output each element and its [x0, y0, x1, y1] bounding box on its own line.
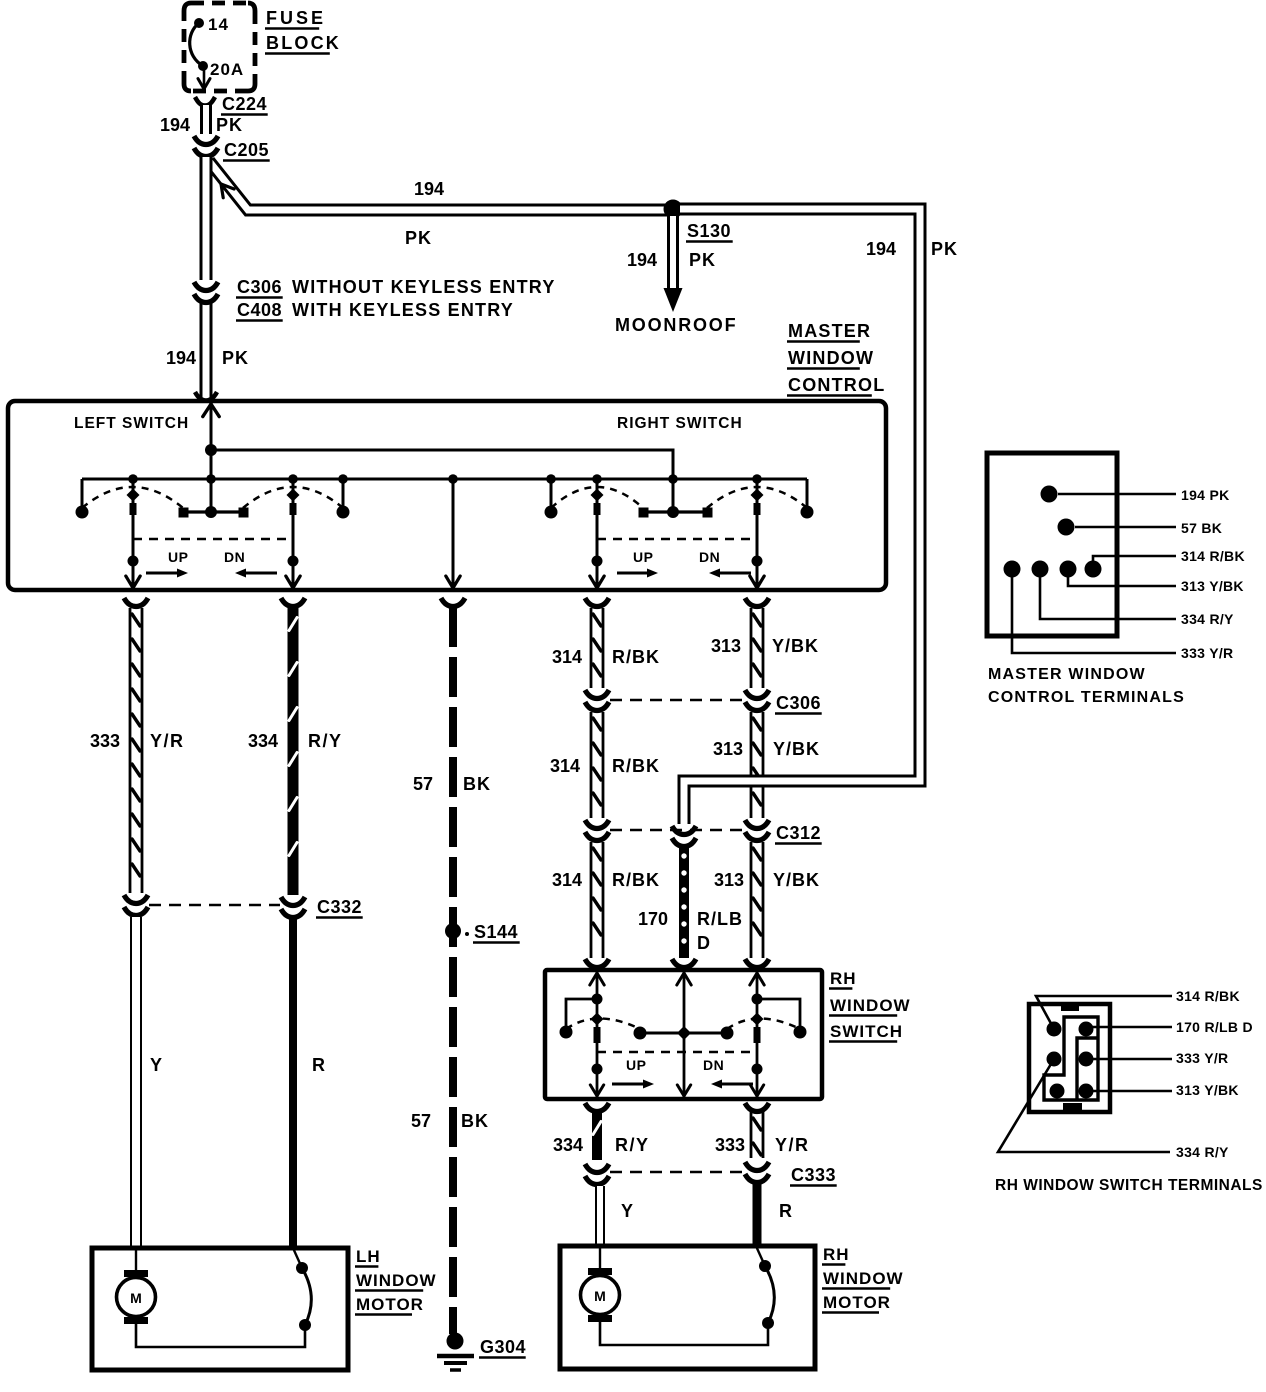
connector C332 on wire 333: [124, 895, 148, 904]
connector C333 on wire 333: [745, 1162, 769, 1171]
svg-text:MOONROOF: MOONROOF: [615, 315, 737, 335]
svg-text:334 R/Y: 334 R/Y: [1181, 611, 1234, 627]
feed wire to left switch center contact: [210, 450, 213, 510]
feed entry arrow into box: [203, 404, 211, 417]
RH window switch terminals connector: [1029, 1004, 1110, 1112]
wire 313 Y/BK segment 2: [750, 712, 753, 818]
svg-text:C224: C224: [222, 94, 267, 114]
svg-text:BK: BK: [463, 774, 491, 794]
svg-text:57: 57: [411, 1111, 431, 1131]
RH switch left wiper: [596, 973, 599, 1096]
wire R to RH motor: [753, 1184, 762, 1245]
svg-text:Y/R: Y/R: [150, 731, 185, 751]
svg-text:WINDOW: WINDOW: [788, 348, 874, 368]
terminal pin 194 PK: [1041, 486, 1058, 503]
C312 dashed tie line: [610, 829, 744, 832]
RH switch wiper arcs: [566, 1019, 640, 1030]
svg-text:194: 194: [414, 179, 444, 199]
svg-text:Y/R: Y/R: [775, 1135, 810, 1155]
svg-text:57: 57: [413, 774, 433, 794]
svg-text:WINDOW: WINDOW: [356, 1271, 437, 1290]
svg-text:UP: UP: [633, 549, 653, 565]
svg-text:SWITCH: SWITCH: [830, 1022, 903, 1041]
splice S144: [445, 923, 461, 939]
svg-text:WINDOW: WINDOW: [830, 996, 911, 1015]
svg-text:333 Y/R: 333 Y/R: [1181, 645, 1233, 661]
svg-text:C306: C306: [237, 277, 282, 297]
svg-text:C312: C312: [776, 823, 821, 843]
svg-text:194: 194: [866, 239, 896, 259]
RH motor symbol: [599, 1246, 601, 1268]
svg-text:194 PK: 194 PK: [1181, 487, 1230, 503]
right switch contacts: [545, 506, 558, 519]
svg-text:R/Y: R/Y: [308, 731, 343, 751]
connector C312 on wire 313: [745, 820, 769, 829]
ground G304 symbol: [447, 1333, 464, 1350]
svg-text:314 R/BK: 314 R/BK: [1176, 988, 1240, 1004]
svg-text:CONTROL TERMINALS: CONTROL TERMINALS: [988, 689, 1185, 706]
connector cups under RH switch: [585, 1103, 609, 1112]
connector C224 symbol: [195, 97, 215, 106]
wire 194 PK stub to moonroof: [667, 216, 679, 288]
svg-text:PK: PK: [222, 348, 249, 368]
leader 313 Y/BK rh: [1086, 1090, 1172, 1093]
connector cup at left switch feed: [195, 392, 217, 401]
connector key channel: [1044, 1017, 1098, 1100]
svg-text:PK: PK: [689, 250, 716, 270]
svg-text:Y/BK: Y/BK: [773, 739, 820, 759]
splice S130: [664, 200, 683, 219]
wire 314 R/BK segment 3: [590, 842, 593, 958]
svg-text:FUSE: FUSE: [266, 8, 326, 28]
svg-text:RIGHT SWITCH: RIGHT SWITCH: [617, 415, 743, 432]
wire 194 PK right feed down to C312: [680, 209, 920, 824]
svg-text:57 BK: 57 BK: [1181, 520, 1222, 536]
fuse block outline: [184, 3, 255, 91]
svg-text:MOTOR: MOTOR: [823, 1293, 891, 1312]
feed junction node: [205, 444, 217, 456]
leader 313 Y/BK: [1068, 569, 1176, 586]
svg-text:Y/BK: Y/BK: [772, 636, 819, 656]
left switch wiper arcs: [82, 487, 183, 508]
wire 313 Y/BK segment 3: [750, 842, 753, 958]
wire 170 R/LB D dotted: [679, 848, 689, 958]
svg-text:R/BK: R/BK: [612, 870, 660, 890]
svg-text:RH: RH: [830, 969, 857, 988]
wire from bus to 57 BK output: [452, 479, 455, 588]
RH switch center wire: [683, 973, 686, 1096]
svg-text:MASTER: MASTER: [788, 321, 871, 341]
svg-text:UP: UP: [626, 1057, 646, 1073]
svg-text:LH: LH: [356, 1247, 381, 1266]
RH switch mechanical link: [597, 1051, 757, 1054]
leader 57 BK: [1075, 526, 1176, 529]
fuse output arrow: [203, 66, 206, 86]
bus junction dots: [128, 474, 138, 484]
LH circuit breaker: [299, 1319, 311, 1331]
svg-text:170 R/LB D: 170 R/LB D: [1176, 1019, 1253, 1035]
RH switch contacts: [634, 1027, 647, 1040]
terminal pin 334 R/Y: [1032, 561, 1049, 578]
svg-text:R: R: [779, 1201, 792, 1221]
left switch contacts: [76, 506, 89, 519]
feed wire to right switch center contact: [211, 450, 673, 510]
svg-text:MOTOR: MOTOR: [356, 1295, 424, 1314]
leader 333 Y/R: [1012, 569, 1176, 653]
svg-text:314: 314: [552, 647, 582, 667]
svg-text:C205: C205: [224, 140, 269, 160]
wire 334 R/Y to C333: [592, 1112, 602, 1160]
svg-text:314 R/BK: 314 R/BK: [1181, 548, 1245, 564]
wire 57 BK dashed: [449, 607, 457, 1334]
svg-text:MASTER WINDOW: MASTER WINDOW: [988, 666, 1146, 683]
leader 194 PK: [1058, 493, 1176, 496]
leader 333 Y/R rh: [1086, 1058, 1172, 1061]
svg-text:333: 333: [715, 1135, 745, 1155]
wire Y to RH motor: [595, 1186, 605, 1245]
right switch wiper arcs: [551, 487, 643, 508]
svg-text:PK: PK: [931, 239, 958, 259]
wire 314 R/BK segment 1: [590, 608, 593, 688]
RH window motor box: [560, 1246, 815, 1369]
terminal pin 334 R/Y rh: [1047, 1052, 1062, 1067]
C333 dashed tie line: [610, 1171, 744, 1174]
connector C306 on wire 314: [585, 690, 609, 699]
svg-text:BLOCK: BLOCK: [266, 33, 341, 53]
svg-text:20A: 20A: [210, 60, 244, 79]
svg-text:314: 314: [550, 756, 580, 776]
RH window switch box: [545, 970, 822, 1099]
leader 170 R/LB D: [1086, 1026, 1172, 1029]
svg-text:313: 313: [711, 636, 741, 656]
connector cups above RH switch: [585, 959, 609, 968]
leader 334 R/Y: [1040, 569, 1176, 619]
svg-text:DN: DN: [224, 549, 245, 565]
svg-text:Y/BK: Y/BK: [773, 870, 820, 890]
wiper contact at x=757: [756, 479, 759, 588]
svg-text:WITHOUT KEYLESS ENTRY: WITHOUT KEYLESS ENTRY: [292, 277, 556, 297]
svg-text:313: 313: [713, 739, 743, 759]
connector C306 on wire 313: [745, 690, 769, 699]
connector C332 on wire 334: [281, 897, 305, 906]
svg-text:C306: C306: [776, 693, 821, 713]
moonroof feed arrow: [664, 288, 683, 312]
svg-text:PK: PK: [216, 115, 243, 135]
wire 194 from C224 to C205: [200, 105, 212, 134]
svg-text:PK: PK: [405, 228, 432, 248]
svg-text:333 Y/R: 333 Y/R: [1176, 1050, 1228, 1066]
terminal pin 314 R/BK rh: [1047, 1022, 1062, 1037]
svg-text:CONTROL: CONTROL: [788, 375, 885, 395]
svg-text:170: 170: [638, 909, 668, 929]
svg-text:C333: C333: [791, 1165, 836, 1185]
connector C333 on wire 334: [585, 1164, 609, 1173]
leader 314 R/BK rh: [1036, 996, 1172, 1029]
connector cups under master box: [124, 598, 148, 607]
svg-text:LEFT SWITCH: LEFT SWITCH: [74, 415, 189, 432]
svg-text:R/BK: R/BK: [612, 647, 660, 667]
svg-text:R: R: [312, 1055, 325, 1075]
terminal pin 333 Y/R rh: [1079, 1052, 1094, 1067]
svg-text:R/LB: R/LB: [697, 909, 743, 929]
svg-text:334: 334: [248, 731, 278, 751]
master window control terminals connector: [987, 453, 1117, 636]
svg-text:Y: Y: [150, 1055, 162, 1075]
svg-text:333: 333: [90, 731, 120, 751]
svg-text:S130: S130: [687, 221, 731, 241]
arrowhead toward C205: [221, 184, 223, 198]
left switch mechanical link: [133, 538, 293, 541]
svg-text:C332: C332: [317, 897, 362, 917]
terminal pin 314 R/BK: [1085, 561, 1102, 578]
svg-text:BK: BK: [461, 1111, 489, 1131]
wire 170 feed crossing over wire 313: [735, 775, 802, 788]
RH motor return wire: [600, 1322, 768, 1345]
terminal pin bottom left: [1050, 1084, 1065, 1099]
connector C312 on feed wire: [672, 826, 696, 835]
LH motor symbol: [135, 1248, 137, 1270]
svg-text:313 Y/BK: 313 Y/BK: [1176, 1082, 1239, 1098]
svg-text:334 R/Y: 334 R/Y: [1176, 1144, 1229, 1160]
connector C306/C408 inline symbol: [194, 282, 218, 291]
switch common bus: [82, 478, 807, 481]
wire 313 Y/BK segment 1: [750, 608, 753, 688]
terminal pin 313 Y/BK: [1060, 561, 1077, 578]
svg-text:Y: Y: [621, 1201, 633, 1221]
fuse F14 20A symbol: [194, 18, 204, 28]
connector C312 on wire 314: [585, 820, 609, 829]
svg-text:WINDOW: WINDOW: [823, 1269, 904, 1288]
wire R to LH motor: [289, 919, 297, 1247]
leader 314 R/BK: [1093, 556, 1176, 569]
RH circuit breaker: [762, 1317, 774, 1329]
svg-text:194: 194: [166, 348, 196, 368]
svg-text:R/Y: R/Y: [615, 1135, 650, 1155]
svg-text:194: 194: [627, 250, 657, 270]
wire Y to LH motor: [130, 917, 142, 1247]
svg-text:S144: S144: [474, 922, 518, 942]
terminal pin 333 Y/R: [1004, 561, 1021, 578]
svg-text:DN: DN: [703, 1057, 724, 1073]
svg-text:DN: DN: [699, 549, 720, 565]
svg-text:334: 334: [553, 1135, 583, 1155]
wire 314 R/BK segment 2: [590, 712, 593, 818]
C306 dashed tie line: [610, 699, 744, 702]
svg-text:314: 314: [552, 870, 582, 890]
wire 333 Y/R to C333: [750, 1112, 753, 1158]
svg-text:R/BK: R/BK: [612, 756, 660, 776]
bus stub right section: [550, 479, 553, 506]
svg-text:M: M: [130, 1290, 142, 1306]
svg-text:14: 14: [208, 15, 229, 34]
RH switch right wiper: [756, 973, 759, 1096]
svg-text:313 Y/BK: 313 Y/BK: [1181, 578, 1244, 594]
terminal pin 57 BK: [1058, 519, 1075, 536]
right switch mechanical link: [597, 538, 757, 541]
wiper contact at x=597: [596, 479, 599, 588]
svg-text:RH: RH: [823, 1245, 850, 1264]
terminal pin 170 R/LB D: [1079, 1022, 1094, 1037]
leader 334 R/Y rh: [998, 1059, 1170, 1152]
svg-text:D: D: [697, 933, 710, 953]
wire 194 PK from C205 to left switch: [200, 157, 213, 280]
terminal pin 313 Y/BK rh: [1079, 1084, 1094, 1099]
svg-text:194: 194: [160, 115, 190, 135]
wiper contact at x=133: [132, 479, 135, 588]
wire 333 Y/R hatched: [129, 608, 132, 893]
svg-text:RH WINDOW SWITCH TERMINALS: RH WINDOW SWITCH TERMINALS: [995, 1177, 1263, 1194]
wiper contact at x=293: [292, 479, 295, 588]
LH motor return wire: [136, 1324, 305, 1347]
svg-text:C408: C408: [237, 300, 282, 320]
svg-text:313: 313: [714, 870, 744, 890]
RH switch entry arrows: [590, 973, 597, 985]
svg-text:WITH KEYLESS ENTRY: WITH KEYLESS ENTRY: [292, 300, 514, 320]
svg-text:UP: UP: [168, 549, 188, 565]
C332 dashed tie line: [149, 904, 280, 907]
bus stub left section: [342, 479, 345, 506]
master window control box: [8, 401, 886, 590]
LH window motor box: [92, 1248, 348, 1370]
svg-text:M: M: [594, 1288, 606, 1304]
wire 194 branch from C205 to splice S130: [209, 161, 673, 210]
wire 334 R/Y solid: [288, 606, 299, 895]
svg-text:G304: G304: [480, 1337, 526, 1357]
connector C205 symbol: [194, 136, 218, 145]
